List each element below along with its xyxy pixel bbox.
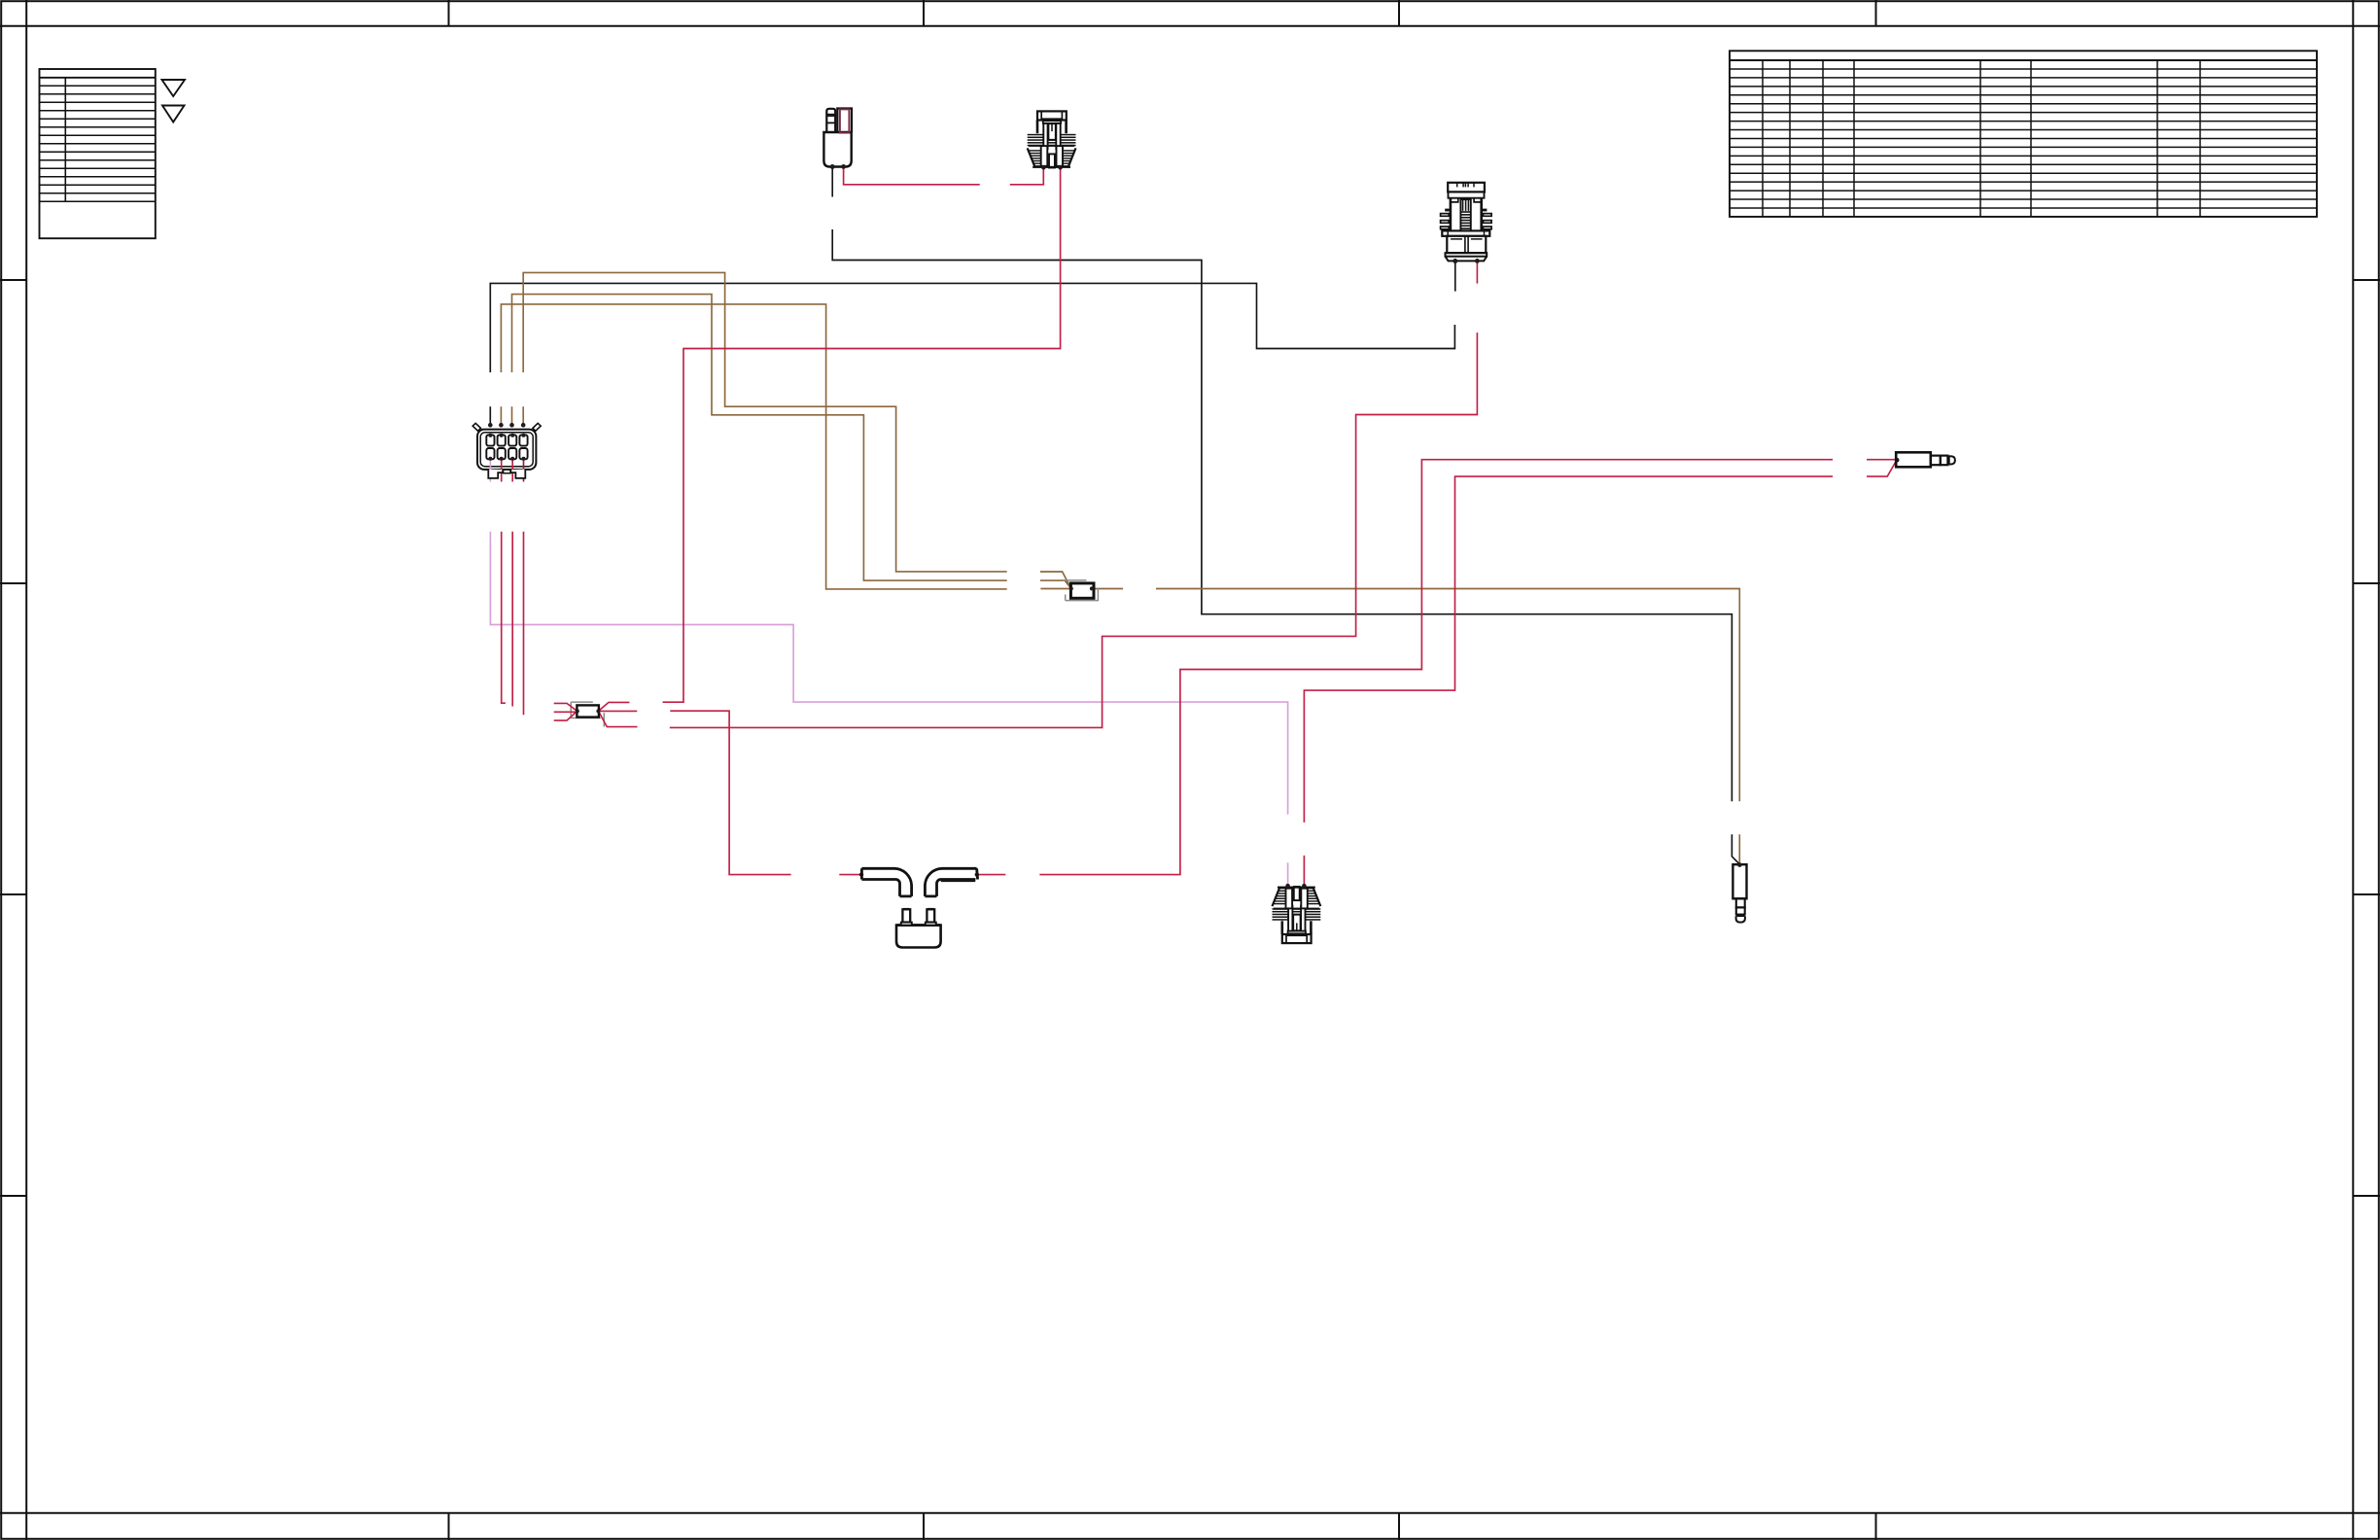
wire C1-3 olive stub <box>511 406 513 425</box>
wire pink to connector C5 <box>1287 862 1289 885</box>
wire red right leg to jack J1 top <box>1039 460 1833 875</box>
jack plug J2 <box>1732 864 1746 898</box>
connector C2 <box>1037 111 1067 120</box>
wire C1-4 red lower <box>523 532 525 716</box>
wire P1-B black stub <box>831 167 833 197</box>
wire C1-4 olive run <box>523 272 1006 572</box>
wire C1-3 olive run <box>512 295 1007 580</box>
flag note triangle 2 <box>162 106 185 122</box>
wire red jack J1 top stub <box>1867 459 1896 461</box>
splice S1 <box>571 702 604 726</box>
wire P1-B black run <box>832 229 1732 801</box>
wire C1-2 red lower <box>502 532 506 703</box>
wire C2 red run to node <box>663 168 1061 702</box>
wire black lead into jack J2 <box>1732 834 1739 864</box>
wire C1-2 olive run <box>501 304 1006 589</box>
wire C1-1 black run <box>490 283 1454 372</box>
wire olive S2 to jack J2 <box>1092 589 1740 864</box>
wire red to connector C5 <box>1303 856 1305 886</box>
wire C1-3 red lower <box>511 532 513 707</box>
wire red T-fitting right leg <box>977 874 1006 876</box>
wire C1-2 olive stub <box>500 406 502 425</box>
flag note triangle 1 <box>162 80 186 96</box>
wire C1-1 black stub <box>489 406 491 425</box>
wire C1-4 olive stub <box>522 406 524 425</box>
connector C4 <box>1448 183 1485 192</box>
connector P1 <box>823 132 851 167</box>
jack plug J1 <box>1896 452 1931 467</box>
connector C5 <box>1282 934 1312 943</box>
wire olive leads into splice S2 <box>1040 572 1071 589</box>
parts table <box>1730 51 2317 217</box>
wire red jack J1 lower run <box>1304 461 1896 822</box>
splice S2 <box>1063 580 1099 601</box>
wire C4 black stub <box>1454 261 1456 291</box>
wire red splice branch long <box>670 332 1478 727</box>
pump B1 <box>896 926 941 948</box>
wire C1-1 pink run <box>490 532 1287 815</box>
wire P1-A red <box>844 167 1044 185</box>
wire red T-fitting left stub <box>839 874 861 876</box>
wire red splice branch to T-fitting <box>670 711 790 874</box>
tube fitting T1 <box>861 868 911 896</box>
connector C1 <box>472 423 480 431</box>
wire C4 red stub <box>1476 261 1478 283</box>
revision table <box>40 69 156 238</box>
